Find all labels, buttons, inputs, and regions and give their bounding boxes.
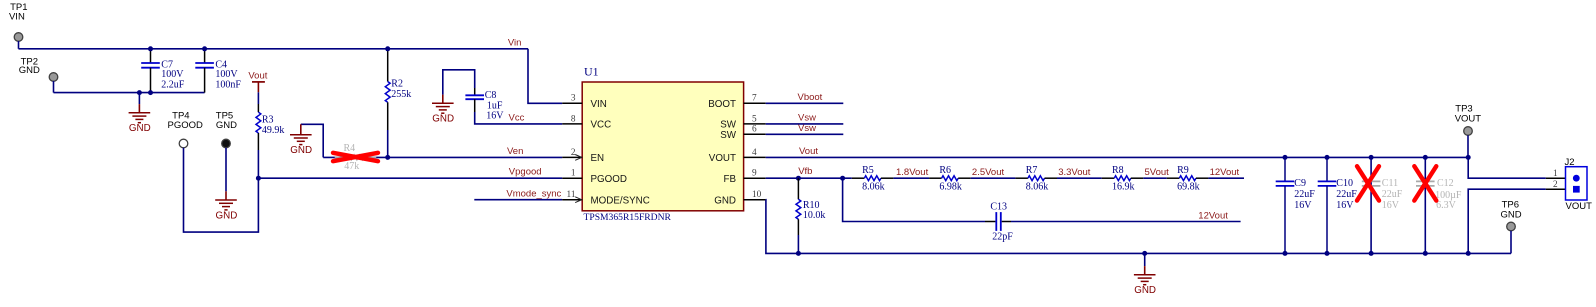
- wire Vsw stub pin5: [766, 123, 844, 125]
- wire Vout symbol to R3: [257, 92, 259, 104]
- svg-text:8.06k: 8.06k: [1026, 182, 1049, 193]
- svg-text:Vin: Vin: [508, 37, 522, 48]
- junction dot ground rail GND symbol: [1142, 251, 1147, 256]
- svg-text:R3: R3: [262, 114, 274, 125]
- svg-text:PGOOD: PGOOD: [168, 120, 204, 131]
- svg-text:GND: GND: [216, 210, 238, 221]
- svg-text:6.3V: 6.3V: [1436, 200, 1457, 211]
- svg-text:VOUT: VOUT: [1566, 201, 1593, 212]
- svg-text:EN: EN: [591, 153, 605, 164]
- svg-text:GND: GND: [432, 114, 454, 125]
- svg-text:4: 4: [752, 148, 757, 158]
- junction dot R2 top: [385, 46, 390, 51]
- resistor R10: [797, 178, 799, 199]
- pin 10 GND stub: [744, 199, 766, 201]
- junction dot R10 bottom: [796, 251, 801, 256]
- pin 11 MODE/SYNC input arrow: [575, 197, 582, 203]
- capacitor C4: [204, 49, 206, 63]
- svg-text:16V: 16V: [1336, 200, 1354, 211]
- wire R7 to R8: [1057, 177, 1102, 179]
- wire R10 to ground rail: [797, 235, 799, 253]
- wire input ground rail: [54, 92, 205, 94]
- pin 5 SW stub: [744, 123, 766, 125]
- wire Vboot stub: [766, 102, 844, 104]
- junction dot ground rail GND stem: [137, 90, 142, 95]
- svg-text:C9: C9: [1294, 178, 1306, 189]
- svg-text:VOUT: VOUT: [709, 153, 736, 164]
- svg-text:R9: R9: [1177, 165, 1189, 176]
- svg-text:FB: FB: [723, 174, 736, 185]
- svg-text:Vout: Vout: [799, 146, 818, 157]
- resistor R6: [929, 177, 942, 179]
- svg-text:6.98k: 6.98k: [939, 182, 962, 193]
- node PGOOD junction dot: [256, 176, 261, 181]
- svg-text:J2: J2: [1565, 157, 1575, 168]
- resistor R9: [1167, 177, 1180, 179]
- wire VIN rail drop to U1 VIN pin: [528, 49, 562, 104]
- wire R2 to EN net: [387, 130, 389, 157]
- ground symbol output rail: [1144, 253, 1146, 266]
- svg-text:C8: C8: [485, 90, 497, 101]
- junction dot output rail end: [1466, 155, 1471, 160]
- pin 9 FB stub: [744, 177, 766, 179]
- svg-text:5: 5: [752, 114, 757, 124]
- resistor R3: [257, 104, 259, 112]
- svg-text:GND: GND: [1501, 209, 1522, 220]
- junction dots C9: [1283, 155, 1288, 160]
- test point TP1: [14, 33, 23, 42]
- svg-text:Vfb: Vfb: [798, 166, 812, 177]
- wire VOUT net to output rail: [766, 156, 1468, 158]
- wire U1 GND pin to ground rail: [766, 200, 1511, 254]
- wire VIN top rail: [19, 48, 529, 50]
- svg-text:2.2uF: 2.2uF: [161, 80, 185, 91]
- svg-text:12Vout: 12Vout: [1198, 211, 1228, 222]
- capacitor C9: [1284, 157, 1286, 181]
- pin 11 MODE/SYNC stub: [562, 199, 582, 201]
- svg-text:GND: GND: [19, 65, 40, 76]
- junction dot C7 top: [148, 46, 153, 51]
- pin 8 VCC stub: [562, 123, 582, 125]
- test point TP5 (filled): [222, 139, 231, 148]
- svg-text:8: 8: [571, 114, 576, 124]
- pin 2 EN stub: [562, 156, 582, 158]
- pin 1 PGOOD stub: [562, 177, 582, 179]
- junction dot C7 bottom: [148, 90, 153, 95]
- svg-text:Vmode_sync: Vmode_sync: [506, 189, 561, 200]
- wire TP2 to ground rail: [53, 81, 55, 93]
- svg-text:1uF: 1uF: [487, 100, 503, 111]
- wire FB branch down to C13 row: [843, 178, 985, 221]
- svg-text:Vout: Vout: [248, 71, 267, 82]
- svg-text:PGOOD: PGOOD: [591, 174, 627, 185]
- svg-text:1: 1: [1553, 169, 1558, 179]
- wire J2 pin 2 to ground rail: [1468, 189, 1546, 253]
- svg-text:22uF: 22uF: [1336, 189, 1357, 200]
- svg-text:2: 2: [571, 148, 576, 158]
- svg-text:1: 1: [571, 169, 576, 179]
- DNP cross on C11: [1357, 166, 1379, 200]
- svg-text:GND: GND: [129, 123, 151, 134]
- resistor R5: [852, 177, 865, 179]
- junction dot C4 top: [202, 46, 207, 51]
- svg-text:SW: SW: [720, 130, 737, 141]
- ground symbol EN pulldown: [300, 124, 302, 134]
- capacitor C12 (DNP, greyed): [1424, 157, 1426, 253]
- svg-text:22pF: 22pF: [992, 232, 1013, 243]
- svg-text:16V: 16V: [1294, 200, 1312, 211]
- resistor R4 (DNP, greyed): [335, 156, 348, 158]
- svg-text:SW: SW: [720, 120, 737, 131]
- svg-text:100nF: 100nF: [215, 80, 241, 91]
- test point TP3: [1464, 127, 1473, 136]
- DNP cross on R4: [333, 153, 378, 161]
- wire MODE/SYNC net: [474, 199, 562, 201]
- wire R3 to PGOOD node: [257, 150, 259, 178]
- junction dots C10: [1325, 155, 1330, 160]
- junction dots C11: [1369, 155, 1374, 160]
- ground symbol TP5: [225, 148, 227, 192]
- wire EN net to U1: [388, 156, 563, 158]
- svg-text:GND: GND: [290, 145, 312, 156]
- test point TP2: [49, 73, 58, 82]
- svg-text:R8: R8: [1112, 165, 1124, 176]
- svg-text:Vcc: Vcc: [509, 112, 525, 123]
- wire output rail to J2 pin 1: [1468, 157, 1546, 178]
- junction dot J2 ground: [1466, 251, 1471, 256]
- wire FB net: [766, 177, 852, 179]
- wire TP3 to output rail: [1467, 135, 1469, 157]
- svg-text:22uF: 22uF: [1382, 189, 1403, 200]
- junction dot FB / R10: [796, 176, 801, 181]
- svg-text:9: 9: [752, 169, 757, 179]
- svg-text:10: 10: [752, 190, 762, 200]
- svg-text:69.8k: 69.8k: [1177, 182, 1200, 193]
- resistor R2: [387, 49, 389, 82]
- pin 1 stub J2: [1546, 177, 1566, 179]
- svg-text:100V: 100V: [215, 69, 238, 80]
- svg-text:TPSM365R15FRDNR: TPSM365R15FRDNR: [584, 212, 672, 223]
- svg-text:R7: R7: [1026, 165, 1038, 176]
- svg-text:VOUT: VOUT: [1455, 113, 1482, 124]
- svg-text:255k: 255k: [391, 89, 411, 100]
- wire TP6 to ground rail: [1510, 231, 1512, 254]
- connector J2: [1566, 167, 1588, 200]
- resistor R8: [1102, 177, 1115, 179]
- svg-text:R5: R5: [862, 165, 874, 176]
- op-amp U1 body (TPSM365R15FRDNR regulator): [582, 82, 743, 211]
- junction dots C12: [1423, 155, 1428, 160]
- svg-text:16V: 16V: [1382, 200, 1400, 211]
- pin 2 EN input arrow: [575, 155, 582, 161]
- svg-text:5Vout: 5Vout: [1145, 167, 1170, 178]
- svg-text:VIN: VIN: [591, 99, 607, 110]
- svg-text:2.5Vout: 2.5Vout: [972, 167, 1005, 178]
- svg-text:U1: U1: [584, 64, 599, 78]
- capacitor C10: [1326, 157, 1328, 181]
- svg-text:Vpgood: Vpgood: [509, 167, 542, 178]
- capacitor C8: [474, 88, 476, 95]
- svg-text:49.9k: 49.9k: [262, 125, 285, 136]
- svg-text:C13: C13: [990, 201, 1007, 212]
- svg-text:100V: 100V: [161, 69, 184, 80]
- svg-text:12Vout: 12Vout: [1210, 167, 1240, 178]
- wire R8 to R9: [1143, 177, 1167, 179]
- svg-text:C12: C12: [1437, 178, 1454, 189]
- svg-text:7: 7: [752, 94, 757, 104]
- svg-text:16.9k: 16.9k: [1112, 182, 1135, 193]
- svg-text:16V: 16V: [486, 111, 504, 122]
- svg-text:GND: GND: [216, 120, 237, 131]
- wire R5 to R6: [893, 177, 929, 179]
- svg-text:GND: GND: [1134, 285, 1156, 296]
- wire TP4 loop to PGOOD node: [184, 148, 259, 232]
- node EN junction dot: [385, 155, 390, 160]
- wire R9 to 12Vout net end: [1208, 177, 1244, 179]
- svg-text:VCC: VCC: [591, 120, 612, 131]
- wire C8 top arm to GND: [443, 70, 475, 95]
- svg-text:8.06k: 8.06k: [862, 182, 885, 193]
- ground symbol C8: [442, 95, 444, 104]
- svg-text:Vsw: Vsw: [798, 112, 816, 123]
- svg-text:1.8Vout: 1.8Vout: [896, 167, 929, 178]
- ground symbol input rail: [138, 93, 140, 105]
- wire C13 to 12Vout net end: [1011, 221, 1241, 223]
- wire Vsw stub pin6: [766, 133, 844, 135]
- pin 4 VOUT stub: [744, 156, 766, 158]
- wire C8 to VCC pin: [475, 112, 563, 124]
- svg-text:47k: 47k: [344, 161, 359, 172]
- wire PGOOD net: [258, 177, 562, 179]
- capacitor C11 (DNP, greyed): [1370, 157, 1372, 253]
- wire TP1 to VIN rail: [18, 41, 20, 49]
- svg-text:3.3Vout: 3.3Vout: [1058, 167, 1091, 178]
- wire R6 to R7: [971, 177, 1016, 179]
- svg-text:R4: R4: [344, 143, 356, 154]
- test point TP6: [1507, 222, 1516, 231]
- pin 3 VIN stub: [562, 102, 582, 104]
- capacitor C13 (horizontal): [985, 221, 995, 223]
- junction dot FB / C13 branch: [840, 176, 845, 181]
- svg-text:MODE/SYNC: MODE/SYNC: [591, 195, 650, 206]
- pin 2 stub J2: [1546, 188, 1566, 190]
- svg-text:C10: C10: [1336, 178, 1353, 189]
- capacitor C7: [150, 49, 152, 63]
- svg-text:10.0k: 10.0k: [803, 210, 826, 221]
- svg-text:VIN: VIN: [9, 11, 25, 22]
- svg-text:Vsw: Vsw: [798, 123, 816, 134]
- svg-text:C11: C11: [1382, 178, 1398, 189]
- DNP cross on C12: [1414, 166, 1436, 200]
- svg-text:3: 3: [571, 94, 576, 104]
- resistor R7: [1015, 177, 1028, 179]
- svg-text:GND: GND: [714, 195, 736, 206]
- svg-text:BOOT: BOOT: [708, 99, 736, 110]
- svg-text:Vboot: Vboot: [798, 92, 823, 103]
- wire R4 left vertical to GND arm: [323, 156, 388, 158]
- svg-text:2: 2: [1553, 180, 1558, 190]
- svg-text:R6: R6: [939, 165, 951, 176]
- pin 7 BOOT stub: [744, 102, 766, 104]
- test point TP4 (open): [179, 139, 188, 148]
- svg-text:6: 6: [752, 125, 757, 135]
- svg-text:22uF: 22uF: [1294, 189, 1315, 200]
- svg-text:Ven: Ven: [507, 146, 523, 157]
- pin 6 SW stub: [744, 133, 766, 135]
- svg-text:11: 11: [567, 190, 576, 200]
